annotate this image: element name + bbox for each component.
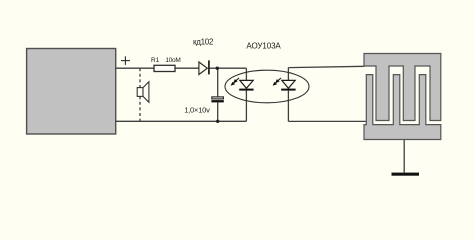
svg-text:R1: R1 [151,57,160,64]
svg-text:АОУ103А: АОУ103А [246,41,281,50]
svg-text:1,0×10v: 1,0×10v [184,106,210,115]
svg-text:10оМ: 10оМ [165,57,180,64]
svg-text:кд102: кд102 [193,37,214,46]
